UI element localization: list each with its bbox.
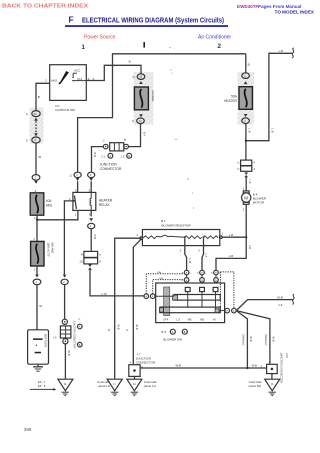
- svg-text:(Shielded): (Shielded): [264, 335, 267, 346]
- svg-text:EWD307F: EWD307F: [237, 4, 258, 9]
- svg-text:AM1: AM1: [51, 79, 58, 83]
- svg-text:1(: 1(: [26, 139, 28, 142]
- svg-text:1(: 1(: [237, 162, 239, 165]
- svg-text:Pages From Manual: Pages From Manual: [258, 4, 301, 9]
- svg-text:100A ALT-S: 100A ALT-S: [47, 242, 51, 256]
- svg-text:1(A): 1(A): [157, 271, 161, 274]
- svg-text:D: D: [35, 139, 37, 142]
- svg-text:panel LH: panel LH: [144, 384, 156, 388]
- svg-text:Air Conditioner: Air Conditioner: [198, 35, 231, 41]
- svg-text:panel LH: panel LH: [98, 384, 110, 388]
- svg-text:3(: 3(: [211, 273, 213, 275]
- svg-text:ACC: ACC: [74, 69, 81, 73]
- svg-text:Power Source: Power Source: [84, 35, 116, 41]
- svg-text:L-W: L-W: [102, 292, 107, 296]
- svg-text:B-Y: B-Y: [142, 132, 146, 137]
- svg-text:B: B: [184, 330, 186, 334]
- svg-text:B-R: B-R: [93, 153, 97, 158]
- svg-text:OFF: OFF: [163, 317, 169, 321]
- svg-text:W: W: [38, 155, 41, 159]
- svg-text:B 1: B 1: [161, 219, 166, 223]
- svg-text:B: B: [38, 95, 40, 99]
- svg-text:HI: HI: [213, 317, 216, 321]
- svg-text:W-B: W-B: [272, 337, 276, 342]
- svg-text:J 1: J 1: [101, 154, 105, 158]
- svg-text:LO: LO: [176, 317, 179, 321]
- svg-text:1: 1: [82, 44, 86, 51]
- svg-text:2: 2: [218, 43, 222, 50]
- svg-text:J 10: J 10: [285, 353, 289, 358]
- svg-text:J 2: J 2: [121, 154, 125, 158]
- svg-text:GAUGE: GAUGE: [151, 91, 155, 102]
- svg-text:W-B: W-B: [277, 296, 283, 300]
- svg-text:+: +: [35, 343, 37, 347]
- svg-text:BACK TO CHAPTER INDEX: BACK TO CHAPTER INDEX: [2, 3, 89, 9]
- svg-text:ME: ME: [188, 317, 192, 321]
- svg-text:IE: IE: [64, 382, 67, 386]
- svg-text:5(: 5(: [132, 76, 134, 79]
- svg-text:4(: 4(: [81, 253, 83, 256]
- svg-text:D: D: [128, 154, 130, 158]
- svg-text:398: 398: [24, 427, 32, 432]
- svg-text:13(: 13(: [79, 260, 83, 263]
- svg-text:,: ,: [174, 45, 175, 50]
- svg-text:1(: 1(: [78, 319, 80, 321]
- svg-text:BATTERY: BATTERY: [44, 334, 48, 348]
- svg-text:L-B: L-B: [248, 245, 252, 249]
- svg-text:50A: 50A: [231, 94, 238, 98]
- svg-text:L-W: L-W: [188, 259, 191, 264]
- svg-text:1(: 1(: [26, 113, 28, 116]
- svg-text:ME: ME: [200, 317, 204, 321]
- svg-text:W-B: W-B: [67, 351, 71, 356]
- svg-text:W-B: W-B: [249, 337, 253, 342]
- svg-text:MOTOR: MOTOR: [253, 201, 265, 205]
- svg-text:ELECTRICAL WIRING DIAGRAM (Sys: ELECTRICAL WIRING DIAGRAM (System Circui…: [82, 16, 224, 25]
- svg-text:RELAY: RELAY: [99, 203, 111, 207]
- svg-text:J 6: J 6: [53, 336, 57, 340]
- svg-text:B 5: B 5: [161, 330, 166, 334]
- svg-text:1-9: 1-9: [278, 303, 282, 307]
- svg-text:L-B: L-B: [248, 129, 252, 133]
- svg-text:W-B: W-B: [135, 325, 139, 330]
- svg-text:R-B: R-B: [93, 235, 97, 240]
- svg-text:HEATER: HEATER: [224, 99, 237, 103]
- svg-text:L-B: L-B: [229, 233, 233, 237]
- svg-text:1(B): 1(B): [159, 278, 163, 280]
- svg-text:IH: IH: [133, 382, 136, 386]
- svg-text:L-B: L-B: [279, 49, 283, 53]
- svg-text:L-B: L-B: [248, 180, 251, 184]
- svg-text:W-B: W-B: [116, 325, 120, 330]
- svg-text:CONNECTOR: CONNECTOR: [100, 167, 122, 171]
- svg-text:80A AM2: 80A AM2: [51, 242, 55, 253]
- svg-text:W-B: W-B: [252, 363, 258, 367]
- svg-text:2(: 2(: [181, 280, 183, 282]
- svg-text:1(: 1(: [126, 328, 128, 332]
- svg-text:JUNCTION CONNECTOR: JUNCTION CONNECTOR: [280, 353, 284, 384]
- svg-text:2(: 2(: [108, 328, 110, 332]
- svg-text:B: B: [124, 138, 126, 142]
- svg-text:L-B: L-B: [229, 254, 233, 258]
- svg-text:40A: 40A: [46, 199, 53, 203]
- svg-text:M: M: [244, 195, 248, 200]
- svg-text:(Shielded): (Shielded): [241, 335, 244, 346]
- svg-text:W-B: W-B: [176, 363, 182, 367]
- svg-text:2(: 2(: [197, 273, 199, 275]
- svg-text:IGNITION SW: IGNITION SW: [55, 108, 75, 112]
- svg-text:IK: IK: [271, 382, 274, 386]
- svg-text:A: A: [110, 154, 112, 158]
- svg-text:L-Y: L-Y: [204, 254, 207, 258]
- svg-text:6A: 6A: [34, 113, 37, 116]
- svg-text:BLOWER RESISTOR: BLOWER RESISTOR: [162, 224, 192, 228]
- svg-text:IG1: IG1: [77, 77, 82, 81]
- svg-text:1(: 1(: [69, 174, 71, 177]
- svg-text:JUNCTION CONNECTOR: JUNCTION CONNECTOR: [73, 321, 76, 349]
- svg-text:EF : 8: EF : 8: [38, 384, 46, 388]
- svg-text:CONNECTOR: CONNECTOR: [136, 361, 156, 365]
- svg-text:C: C: [103, 139, 105, 143]
- svg-text:W: W: [39, 304, 42, 308]
- svg-text:F: F: [69, 16, 74, 25]
- svg-text:AM1: AM1: [46, 203, 53, 207]
- svg-text:TO MODEL INDEX: TO MODEL INDEX: [275, 9, 315, 14]
- svg-text:panel RH: panel RH: [249, 384, 262, 388]
- svg-text:1(: 1(: [132, 120, 134, 123]
- svg-text:B: B: [129, 60, 131, 64]
- svg-text:1(: 1(: [237, 168, 239, 171]
- svg-text:A: A: [172, 330, 174, 334]
- svg-text:BLOWER SW: BLOWER SW: [163, 337, 182, 341]
- svg-text:L-B: L-B: [271, 129, 275, 133]
- svg-text:B: B: [248, 63, 250, 67]
